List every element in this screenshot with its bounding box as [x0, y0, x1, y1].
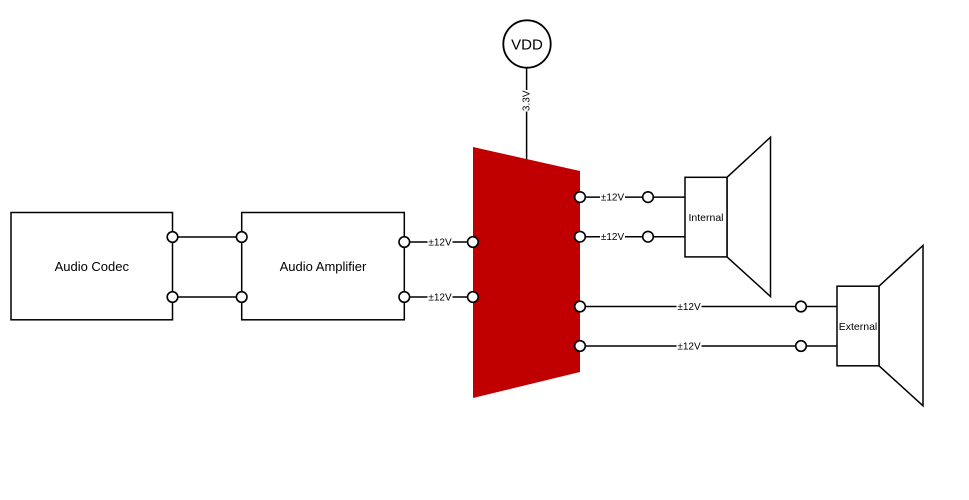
svg-text:±12V: ±12V: [677, 342, 701, 353]
svg-text:Audio Amplifier: Audio Amplifier: [280, 259, 367, 274]
svg-text:±12V: ±12V: [428, 238, 452, 249]
svg-text:±12V: ±12V: [601, 193, 625, 204]
svg-text:3.3V: 3.3V: [521, 90, 532, 111]
svg-text:±12V: ±12V: [677, 302, 701, 313]
svg-text:VDD: VDD: [511, 36, 543, 53]
svg-text:Internal: Internal: [688, 212, 723, 224]
svg-text:±12V: ±12V: [428, 293, 452, 304]
svg-text:Audio Codec: Audio Codec: [55, 259, 130, 274]
svg-text:External: External: [839, 321, 878, 333]
svg-text:±12V: ±12V: [601, 232, 625, 243]
